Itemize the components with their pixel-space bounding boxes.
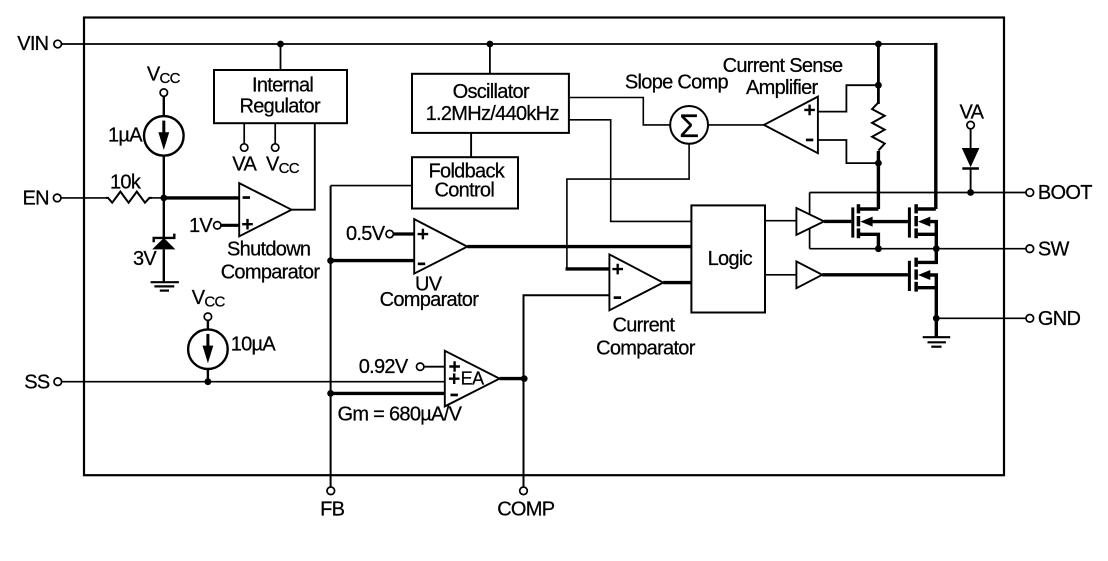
wire VIN to Oscillator — [489, 44, 491, 74]
svg-text:Internal: Internal — [252, 75, 313, 97]
node junction VIN/sense rail — [875, 41, 882, 48]
svg-text:SW: SW — [1038, 238, 1070, 260]
wire SW line — [810, 248, 1027, 250]
transistor M3 low side — [908, 249, 936, 319]
wire current comparator output to logic — [663, 281, 691, 284]
terminal EN — [53, 194, 61, 202]
op-amp U6 error amplifier EA — [445, 351, 500, 407]
svg-text:Slope Comp: Slope Comp — [625, 72, 729, 94]
wire driver1 to M1 gate — [824, 220, 851, 223]
svg-text:Control: Control — [435, 179, 495, 201]
wire current sense amplifier output to summer — [708, 124, 764, 126]
summer U3 slope comp sigma — [670, 106, 708, 144]
svg-text:Σ: Σ — [679, 108, 699, 144]
zener diode D1 3V — [154, 234, 175, 243]
svg-text:Comparator: Comparator — [221, 261, 321, 283]
wire shutdown comparator output to regulator — [292, 123, 315, 210]
svg-text:1µA: 1µA — [108, 125, 143, 147]
block Foldback Control — [412, 157, 518, 208]
wire EA output — [500, 377, 525, 380]
node junction CSA- tap — [875, 160, 882, 167]
node junction diode/BOOT — [967, 189, 974, 196]
terminal SW — [1026, 245, 1034, 253]
wire EN node to zener — [163, 198, 165, 238]
wire sense rail to M1 drain — [877, 151, 880, 209]
node junction 10uA/SS — [205, 378, 212, 385]
svg-text:1V: 1V — [189, 215, 213, 237]
block Internal Regulator U2 — [214, 70, 347, 123]
op-amp U5 UV comparator — [414, 219, 467, 274]
wire FB to UV comparator - input — [331, 259, 415, 262]
wire VCC to 1uA source — [163, 96, 165, 116]
node junction M1 source/SW — [875, 245, 882, 252]
wire GND line — [936, 317, 1026, 319]
wire zener to ground — [163, 249, 165, 281]
wire oscillator to foldback control — [470, 133, 472, 157]
node junction FB/EA- — [327, 390, 334, 397]
wire BOOT line — [810, 192, 1027, 194]
wire summer output to current comparator + input — [567, 144, 689, 269]
node junction VIN/regulator — [277, 41, 284, 48]
terminal SS — [54, 378, 62, 386]
svg-text:Current: Current — [613, 315, 676, 337]
node junction CSA+ tap — [875, 82, 882, 89]
wire driver1 supply BOOT to SW — [809, 193, 811, 249]
wire 10uA source to SS line — [207, 369, 209, 382]
wire 0.92V to EA top + input — [424, 366, 445, 368]
svg-text:Shutdown: Shutdown — [227, 238, 310, 260]
terminal VIN — [54, 40, 62, 48]
resistor R2 current sense — [872, 102, 885, 150]
block Oscillator — [412, 74, 569, 133]
current source I1 1uA — [144, 116, 184, 156]
terminal COMP — [520, 487, 528, 495]
svg-text:FB: FB — [320, 498, 345, 520]
wire 1uA source to EN node — [163, 156, 165, 198]
op-amp U7 current comparator — [609, 254, 663, 310]
svg-text:VA: VA — [960, 101, 985, 123]
wire VCC to 10uA source — [207, 320, 209, 329]
svg-text:Oscillator: Oscillator — [453, 81, 530, 103]
svg-text:Regulator: Regulator — [240, 95, 321, 117]
svg-text:3V: 3V — [133, 248, 157, 270]
wire logic to driver1 — [765, 220, 796, 222]
wire diode to BOOT line — [970, 169, 972, 193]
resistor R1 10k — [106, 192, 152, 203]
svg-text:0.92V: 0.92V — [359, 356, 409, 378]
wire FB to EA - input — [331, 392, 445, 395]
node junction VIN/oscillator — [487, 41, 494, 48]
node EN junction — [160, 195, 167, 202]
ground symbol right — [923, 336, 951, 338]
node junction EA output/COMP — [521, 375, 528, 382]
svg-text:0.5V: 0.5V — [346, 223, 386, 245]
node junction M3 source/GND — [933, 315, 940, 322]
wire VIN rail horizontal — [62, 43, 936, 45]
terminal GND — [1026, 315, 1034, 323]
wire FB rail vertical — [330, 186, 332, 487]
wire oscillator output to logic — [569, 120, 692, 222]
svg-text:GND: GND — [1038, 308, 1081, 330]
wire SS line to EA middle + input — [62, 381, 445, 383]
wire logic to driver2 — [765, 274, 796, 276]
transistor M1 high side left — [851, 204, 908, 249]
wire oscillator output to slope comp summer — [569, 98, 670, 125]
wire CSA + input tap — [818, 85, 879, 111]
wire 1V to shutdown comparator + input — [221, 224, 239, 227]
terminal VCC for 10uA source — [204, 313, 211, 320]
svg-text:Current Sense: Current Sense — [723, 55, 843, 77]
transistor M2 high side right — [908, 204, 936, 249]
wire EN node to shutdown comparator - input — [164, 196, 239, 199]
svg-text:EA: EA — [461, 369, 485, 389]
op-amp U1 shutdown comparator — [239, 183, 291, 236]
node junction M2 source/SW — [933, 245, 940, 252]
svg-text:EN: EN — [23, 188, 49, 210]
terminal FB — [327, 487, 335, 495]
block Logic — [691, 205, 765, 312]
svg-text:SS: SS — [24, 371, 50, 393]
svg-text:10k: 10k — [110, 171, 142, 193]
svg-text:BOOT: BOOT — [1038, 182, 1092, 204]
wire VIN to Internal Regulator — [280, 44, 282, 70]
wire VIN rail corner down to high-side drain — [934, 43, 937, 209]
buffer driver1 high side — [796, 208, 824, 235]
svg-text:10µA: 10µA — [231, 334, 277, 356]
svg-text:Logic: Logic — [708, 248, 753, 270]
pin stub VA of regulator — [243, 123, 245, 144]
wire 0.5V to UV comparator + input — [393, 232, 414, 235]
svg-text:Amplifier: Amplifier — [746, 77, 819, 99]
wire VIN to sense resistor rail — [877, 44, 880, 104]
wire COMP rail and to current comparator - input — [524, 295, 610, 487]
op-amp U4 current sense amplifier — [764, 97, 818, 154]
pin stub VCC of regulator — [274, 123, 276, 144]
wire CSA - input tap — [818, 140, 879, 163]
wire driver2 to M3 gate — [822, 273, 908, 276]
svg-text:1.2MHz/440kHz: 1.2MHz/440kHz — [426, 103, 559, 125]
node junction FB/UV- — [327, 257, 334, 264]
wire resistor to EN node — [152, 197, 164, 199]
svg-text:Gm = 680µA/V: Gm = 680µA/V — [338, 404, 463, 426]
wire M3 source to ground symbol — [935, 318, 938, 337]
outer IC boundary box — [84, 18, 1004, 476]
wire EN to resistor — [61, 197, 108, 199]
svg-text:Comparator: Comparator — [380, 289, 480, 311]
svg-text:Comparator: Comparator — [596, 338, 696, 360]
svg-text:COMP: COMP — [497, 498, 555, 520]
terminal VCC for 1uA source — [160, 89, 167, 96]
current source I2 10uA — [188, 329, 228, 369]
ground symbol left — [151, 281, 179, 283]
wire foldback control to FB rail — [331, 185, 412, 187]
svg-text:VIN: VIN — [17, 33, 48, 55]
wire UV comparator output to logic — [467, 245, 691, 248]
buffer driver2 low side — [796, 261, 822, 288]
svg-text:VA: VA — [232, 154, 257, 176]
terminal BOOT — [1026, 189, 1034, 197]
diode D2 bootstrap — [970, 129, 972, 149]
